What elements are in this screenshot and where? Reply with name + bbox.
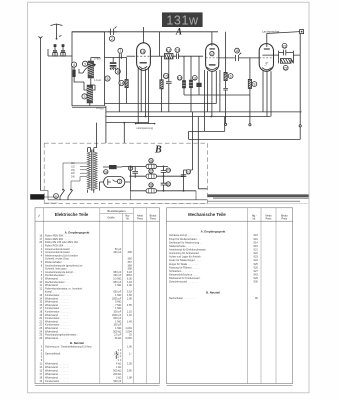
svg-text:21: 21 bbox=[283, 44, 287, 48]
svg-text:Rückwand für Kondensator .: Rückwand für Kondensator . bbox=[169, 276, 201, 280]
right table header bbox=[188, 212, 288, 220]
svg-text:2: 2 bbox=[111, 37, 113, 41]
wire box to tuning cap bbox=[105, 57, 127, 59]
svg-text:Preis: Preis bbox=[266, 217, 272, 220]
svg-text:2 kΩ: 2 kΩ bbox=[116, 375, 121, 379]
electrolytic C29 bbox=[161, 166, 171, 176]
wire to tube V1 grid bbox=[127, 55, 136, 57]
svg-text:Gummiring für Antriebsrad . .: Gummiring für Antriebsrad . . bbox=[169, 251, 202, 255]
transformer top leads bbox=[91, 123, 97, 152]
svg-text:3,60: 3,60 bbox=[127, 369, 133, 373]
svg-text:4: 4 bbox=[73, 63, 75, 67]
svg-text:348: 348 bbox=[128, 250, 133, 254]
svg-text:943: 943 bbox=[254, 273, 259, 277]
svg-text:500 pF: 500 pF bbox=[113, 379, 121, 383]
svg-text:1,05: 1,05 bbox=[127, 362, 133, 366]
svg-text:7: 7 bbox=[119, 49, 121, 53]
svg-text:11: 11 bbox=[193, 76, 197, 80]
tube V2 bbox=[204, 32, 220, 132]
svg-text:Drehknopf für Abstimmung . .: Drehknopf für Abstimmung . . bbox=[169, 240, 202, 244]
filter resistor R10 (dark) bbox=[103, 165, 122, 174]
svg-text:915: 915 bbox=[254, 244, 259, 248]
svg-text:Mechanische Teile: Mechanische Teile bbox=[188, 212, 226, 217]
svg-text:1: 1 bbox=[55, 195, 57, 199]
antenna terminal capacitor C1a bbox=[53, 44, 57, 56]
svg-text:8: 8 bbox=[117, 70, 119, 74]
wire drop from grid cap bbox=[118, 59, 120, 112]
left table header bbox=[37, 209, 156, 220]
blocking capacitor C12 (dark) bbox=[197, 56, 202, 95]
svg-text:B. Netzteil: B. Netzteil bbox=[206, 291, 220, 295]
svg-text:Antriebsrad für Drehkondensato: Antriebsrad für Drehkondensator bbox=[169, 248, 206, 252]
junction dot C30 bottom bbox=[163, 190, 165, 192]
svg-text:B: B bbox=[154, 145, 162, 156]
svg-text:Widerstand . . . . . . . .: Widerstand . . . . . . . . bbox=[45, 375, 69, 379]
svg-text:916: 916 bbox=[254, 237, 259, 241]
censor blob bbox=[30, 194, 44, 199]
svg-text:927: 927 bbox=[254, 269, 259, 273]
svg-text:930: 930 bbox=[254, 280, 259, 284]
earth return into supply bbox=[40, 191, 207, 200]
svg-text:Bestellangaben: Bestellangaben bbox=[108, 209, 126, 213]
resistor R4 (wave switch contact) bbox=[73, 64, 84, 82]
label circle 3b bbox=[82, 94, 87, 99]
rail capacitor C2 bbox=[108, 27, 117, 36]
cathode bus bbox=[106, 122, 148, 124]
band filter box drop wire bbox=[105, 106, 107, 143]
junction dot C29/C30 bbox=[163, 175, 165, 177]
svg-text:926: 926 bbox=[254, 265, 259, 269]
bypass capacitor C15b bbox=[166, 56, 172, 112]
svg-text:10: 10 bbox=[178, 76, 182, 80]
svg-text:1,49: 1,49 bbox=[127, 319, 133, 323]
junction dot C29 top bbox=[163, 166, 165, 168]
svg-text:Sammelblock: Sammelblock bbox=[45, 351, 61, 355]
screen resistor R6 (fed from rail) bbox=[223, 32, 233, 126]
transformer secondary winding bbox=[94, 152, 97, 189]
svg-text:Widerstand . . . . . . . .: Widerstand . . . . . . . . bbox=[45, 365, 69, 369]
junction dot C31 bottom bbox=[183, 190, 185, 192]
heater bus 1 bbox=[106, 111, 302, 113]
svg-text:16: 16 bbox=[141, 50, 145, 54]
svg-text:1,08: 1,08 bbox=[127, 375, 133, 379]
right feed drops to supply bbox=[184, 112, 208, 189]
screen feed from rail bbox=[158, 32, 160, 56]
svg-text:4,30: 4,30 bbox=[127, 283, 133, 287]
svg-text:17: 17 bbox=[210, 52, 214, 56]
svg-text:Kondensator . . . . . . .: Kondensator . . . . . . . bbox=[45, 379, 70, 383]
svg-text:6,060: 6,060 bbox=[125, 336, 132, 340]
label circle 3 bbox=[82, 61, 87, 66]
svg-text:Achse und Lager für Antrieb .: Achse und Lager für Antrieb . bbox=[169, 255, 202, 259]
coil L2 bbox=[87, 85, 93, 106]
svg-text:1,1µH: 1,1µH bbox=[94, 78, 101, 82]
tube V3 (output) bbox=[259, 34, 278, 117]
svg-text:Elektrische Teile: Elektrische Teile bbox=[55, 212, 89, 217]
TABLES bbox=[35, 208, 293, 385]
tuning capacitor C5 (dark) bbox=[110, 58, 119, 71]
svg-text:9: 9 bbox=[253, 83, 255, 87]
svg-text:922: 922 bbox=[254, 251, 259, 255]
heater bus 2 bbox=[106, 116, 271, 118]
svg-text:Widerstand . . . . . . . .: Widerstand . . . . . . . . bbox=[45, 362, 69, 366]
svg-text:1,10: 1,10 bbox=[127, 313, 133, 317]
primary voltage taps bbox=[71, 163, 87, 179]
junction dot V1 filament bbox=[145, 116, 147, 118]
svg-text:13: 13 bbox=[176, 49, 180, 53]
grid resistor R9 bbox=[248, 58, 256, 125]
svg-text:924: 924 bbox=[254, 258, 259, 262]
svg-text:31: 31 bbox=[187, 170, 191, 174]
terminal node HT feed bbox=[299, 125, 301, 127]
label circle 4 bbox=[71, 62, 76, 67]
svg-text:Preis: Preis bbox=[150, 217, 156, 220]
svg-text:30: 30 bbox=[167, 183, 171, 187]
switch to transformer wires bbox=[63, 163, 80, 190]
output coupling network C19/R19 bbox=[279, 34, 301, 71]
electrolytic C30 bbox=[161, 176, 171, 191]
svg-text:3: 3 bbox=[84, 95, 86, 99]
svg-text:Widerstand . . . . . . . .: Widerstand . . . . . . . . bbox=[45, 336, 69, 340]
mains transformer T1 core bbox=[91, 150, 93, 191]
svg-text:12: 12 bbox=[167, 48, 171, 52]
svg-text:Skalenscheibe . . . . . . . .: Skalenscheibe . . . . . . . . bbox=[169, 244, 197, 248]
svg-text:Netzanschlußschnur . . . . .: Netzanschlußschnur . . . . . bbox=[169, 273, 200, 277]
antenna bbox=[51, 24, 63, 39]
grid coupling wires inside box bbox=[90, 58, 100, 91]
AVC resistor R11 bbox=[189, 56, 197, 112]
svg-text:29: 29 bbox=[167, 169, 171, 173]
svg-text:1 kΩ: 1 kΩ bbox=[116, 365, 121, 369]
svg-text:15: 15 bbox=[164, 75, 168, 79]
svg-text:18: 18 bbox=[235, 49, 239, 53]
power section dashed box bbox=[44, 143, 207, 203]
HF choke L12 bbox=[165, 47, 174, 59]
svg-text:Nr.: Nr. bbox=[126, 217, 130, 220]
mains cord from censored plug bbox=[45, 196, 58, 198]
supply node wire (rectifier output) bbox=[129, 166, 131, 190]
svg-text:2: 2 bbox=[119, 180, 121, 184]
bias resistor R28 bbox=[130, 183, 196, 193]
grid leak resistor R14 bbox=[119, 58, 128, 104]
svg-text:923: 923 bbox=[254, 255, 259, 259]
svg-text:Feder für Skalenzeiger . . . .: Feder für Skalenzeiger . . . . bbox=[169, 258, 201, 262]
svg-text:131w: 131w bbox=[166, 13, 199, 27]
band filter box bbox=[72, 32, 105, 106]
svg-text:26: 26 bbox=[149, 159, 153, 163]
divider resistor R27 bbox=[130, 169, 184, 179]
svg-text:14: 14 bbox=[120, 82, 124, 86]
svg-text:1 MΩ: 1 MΩ bbox=[115, 283, 121, 287]
svg-text:919: 919 bbox=[254, 233, 259, 237]
right table frame bbox=[167, 208, 293, 385]
svg-text:Fassung für Röhren . . . . .: Fassung für Röhren . . . . . bbox=[169, 265, 199, 269]
svg-text:914: 914 bbox=[254, 240, 259, 244]
label circle 8 bbox=[115, 69, 120, 74]
mains switch S1 bbox=[54, 189, 73, 200]
svg-text:30 kΩ: 30 kΩ bbox=[115, 336, 122, 340]
bias capacitor C31 bbox=[181, 170, 191, 191]
svg-text:4 kΩ: 4 kΩ bbox=[116, 362, 121, 366]
svg-text:3: 3 bbox=[84, 62, 86, 66]
svg-text:Netzschalter . . . . . . . .: Netzschalter . . . . . . . . bbox=[169, 296, 195, 300]
svg-text:921: 921 bbox=[254, 248, 259, 252]
svg-text:4,55: 4,55 bbox=[127, 303, 133, 307]
label circle 5 bbox=[105, 76, 110, 81]
speaker terminal bbox=[300, 30, 304, 125]
svg-text:Zeiger für Skala . . . . . . .: Zeiger für Skala . . . . . . . . bbox=[169, 262, 199, 266]
trimmer arrow across L1 bbox=[83, 64, 96, 73]
coupling capacitor C13 bbox=[173, 48, 203, 59]
wire input row to filter box bbox=[48, 49, 72, 56]
HT line right vertical bbox=[299, 127, 301, 139]
svg-text:Widerstand . . . . . . . .: Widerstand . . . . . . . . bbox=[45, 369, 69, 373]
svg-text:Preis: Preis bbox=[281, 217, 287, 220]
svg-text:Zwischensockel . . . . . . . .: Zwischensockel . . . . . . . . bbox=[169, 280, 199, 284]
svg-text:24: 24 bbox=[104, 170, 108, 174]
junction dot C31/R27 bbox=[183, 175, 185, 177]
svg-text:500 kΩ: 500 kΩ bbox=[113, 369, 121, 373]
tube V1 bbox=[137, 27, 151, 123]
svg-text:27: 27 bbox=[149, 170, 153, 174]
svg-text:ω³/₄₀₀: ω³/₄₀₀ bbox=[96, 106, 105, 110]
antenna terminal capacitor C1b bbox=[61, 44, 65, 56]
svg-text:925: 925 bbox=[254, 262, 259, 266]
grid capacitor C7 bbox=[118, 48, 123, 59]
svg-text:929: 929 bbox=[254, 276, 259, 280]
wire speaker line bbox=[267, 32, 300, 34]
anode wire V1 to coupling bbox=[150, 55, 164, 57]
svg-text:Größe: Größe bbox=[107, 216, 115, 220]
junction dot heater bus left bbox=[123, 122, 125, 124]
title box 131w bbox=[162, 12, 203, 27]
svg-text:Heizspannung: Heizspannung bbox=[137, 126, 154, 130]
svg-text:Gehäuse kompl. . . . . . . . .: Gehäuse kompl. . . . . . . . . bbox=[169, 233, 199, 237]
anode resistor R15 bbox=[160, 56, 169, 112]
svg-text:2,-: 2,- bbox=[129, 351, 132, 355]
svg-text:Widerstand . . . . . . . .: Widerstand . . . . . . . . bbox=[45, 372, 69, 376]
AVC resistor R10 bbox=[177, 56, 250, 95]
junction dot rectifier node bbox=[130, 175, 132, 177]
cathode return line bbox=[105, 103, 217, 105]
smoothing choke R26 bbox=[122, 158, 168, 168]
earth wire (left vertical) bbox=[39, 38, 41, 191]
svg-text:}: } bbox=[115, 350, 119, 360]
svg-text:Schrauben . . . . . . . .: Schrauben . . . . . . . . bbox=[169, 269, 193, 273]
mains cable bundle (thick) bbox=[152, 195, 309, 204]
filter capacitor C25 bbox=[128, 166, 138, 178]
svg-text:Preis: Preis bbox=[137, 217, 143, 220]
svg-text:Netzanschl.: Netzanschl. bbox=[46, 202, 59, 205]
coupling capacitor C17 bbox=[219, 48, 259, 61]
svg-text:6: 6 bbox=[230, 75, 232, 79]
svg-text:22: 22 bbox=[284, 66, 288, 70]
terminal node bias R9 bbox=[249, 124, 251, 126]
svg-text:1,06: 1,06 bbox=[127, 344, 133, 348]
svg-text:200 kΩ: 200 kΩ bbox=[113, 372, 121, 376]
svg-text:5: 5 bbox=[107, 77, 109, 81]
top rail bbox=[72, 31, 218, 33]
rectifier tube V4 bbox=[99, 176, 130, 190]
svg-text:200 µF: 200 µF bbox=[113, 250, 121, 254]
svg-text:28: 28 bbox=[149, 184, 153, 188]
primary bottom lead bbox=[88, 190, 94, 193]
svg-text:Knopf für Wellenschalter . . .: Knopf für Wellenschalter . . . bbox=[169, 237, 201, 241]
coil L1 bbox=[88, 58, 94, 86]
svg-text:Sicherung m. Gewindehalterung: Sicherung m. Gewindehalterung 6,3 Amp bbox=[45, 344, 92, 348]
svg-text:A. Empfangsgerät: A. Empfangsgerät bbox=[201, 230, 226, 234]
anode feed line y138 bbox=[189, 117, 301, 140]
junction dot V2 filament bbox=[210, 116, 212, 118]
svg-text:2,08: 2,08 bbox=[127, 296, 133, 300]
heater tap terminals bbox=[135, 123, 156, 130]
svg-text:Nr.: Nr. bbox=[253, 217, 257, 220]
transformer primary winding bbox=[87, 152, 90, 189]
left table frame bbox=[35, 208, 160, 385]
label circle 2 bbox=[109, 36, 114, 41]
heater drop from bus bbox=[123, 123, 125, 143]
